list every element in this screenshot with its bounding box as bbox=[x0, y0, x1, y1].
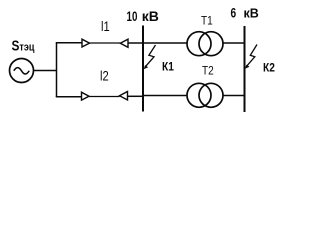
wire L1 to bus 10kV bbox=[128, 42, 144, 44]
wire T2 to bus 6kV bbox=[223, 95, 245, 97]
transformer T2 bbox=[187, 83, 223, 107]
wire bus 10kV to T2 bbox=[143, 95, 188, 97]
wire L2 to bus 10kV bbox=[128, 95, 144, 97]
svg-text:6: 6 bbox=[231, 5, 237, 21]
svg-text:кВ: кВ bbox=[244, 7, 259, 21]
svg-text:кВ: кВ bbox=[142, 8, 159, 24]
label 6 кВ bbox=[231, 5, 237, 21]
wire generator to junction bbox=[34, 70, 57, 72]
svg-text:К1: К1 bbox=[162, 61, 174, 74]
bus 6 kV bbox=[244, 26, 246, 112]
triangle L1 left (cable termination) bbox=[82, 39, 90, 47]
wire L1 left segment bbox=[56, 42, 82, 44]
wire L2 left segment bbox=[56, 96, 82, 98]
label K1 bbox=[162, 61, 174, 74]
generator G (ТЭЦ source) bbox=[10, 59, 34, 83]
label Sтэц bbox=[12, 37, 36, 53]
svg-text:l1: l1 bbox=[101, 19, 110, 34]
bus 10 kV bbox=[142, 26, 144, 112]
label T2 bbox=[202, 65, 214, 78]
wire L2 middle segment bbox=[89, 96, 120, 98]
fault K2 arrowhead bbox=[245, 65, 250, 69]
label T1 bbox=[201, 15, 213, 28]
svg-text:К2: К2 bbox=[263, 62, 275, 75]
label L2 bbox=[100, 68, 109, 83]
wire L1 middle segment bbox=[90, 42, 121, 44]
svg-text:10: 10 bbox=[127, 8, 138, 24]
label L1 bbox=[101, 19, 110, 34]
triangle L2 right (cable termination) bbox=[120, 92, 128, 101]
fault K2 lightning bolt bbox=[246, 45, 257, 67]
triangle L2 left (cable termination) bbox=[82, 92, 90, 100]
label 10 кВ bbox=[127, 8, 138, 24]
fault K1 arrowhead bbox=[144, 65, 149, 69]
svg-text:Т2: Т2 bbox=[202, 65, 214, 78]
label K2 bbox=[263, 62, 275, 75]
wire T1 to bus 6kV bbox=[223, 42, 245, 44]
wire junction vertical bbox=[56, 43, 58, 98]
transformer T1 bbox=[187, 32, 223, 56]
fault K1 lightning bolt bbox=[145, 45, 156, 67]
wire bus 10kV to T1 bbox=[143, 42, 188, 44]
svg-text:l2: l2 bbox=[100, 68, 109, 83]
triangle L1 right (cable termination) bbox=[120, 39, 128, 47]
svg-text:Т1: Т1 bbox=[201, 15, 213, 28]
